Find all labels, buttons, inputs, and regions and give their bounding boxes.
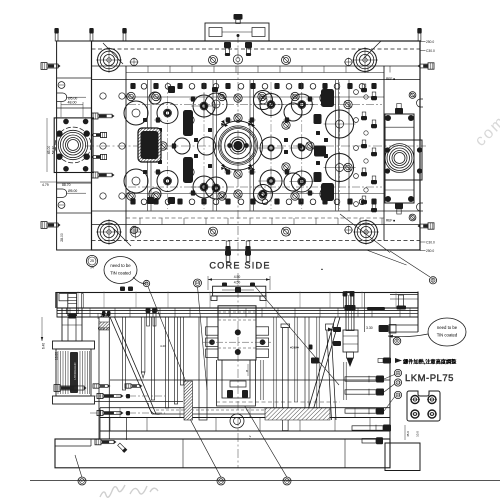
svg-text:17: 17 bbox=[80, 479, 84, 483]
svg-text:15: 15 bbox=[285, 479, 289, 483]
svg-text:C30.0: C30.0 bbox=[426, 49, 435, 53]
svg-text:REF ■: REF ■ bbox=[386, 77, 395, 81]
svg-text:45.0: 45.0 bbox=[406, 431, 410, 437]
svg-text:250.0: 250.0 bbox=[426, 40, 434, 44]
svg-text:14: 14 bbox=[396, 393, 400, 397]
svg-text:CORE SIDE: CORE SIDE bbox=[209, 261, 270, 271]
svg-text:3.30: 3.30 bbox=[366, 326, 373, 330]
svg-text:LKM-PL75: LKM-PL75 bbox=[405, 373, 454, 384]
svg-text:88.70: 88.70 bbox=[62, 183, 71, 187]
svg-text:REF ■: REF ■ bbox=[386, 219, 395, 223]
svg-text:x4: x4 bbox=[90, 265, 94, 269]
svg-text:16.00: 16.00 bbox=[55, 352, 59, 360]
svg-text:11: 11 bbox=[396, 371, 400, 375]
svg-text:4.50: 4.50 bbox=[234, 275, 241, 279]
svg-text:250.0: 250.0 bbox=[426, 249, 434, 253]
svg-text:25: 25 bbox=[90, 259, 94, 263]
svg-text:#DIM#: #DIM# bbox=[290, 346, 299, 350]
svg-text:▲: ▲ bbox=[321, 267, 324, 271]
svg-text:57.30: 57.30 bbox=[52, 146, 56, 155]
svg-text:Ø38.00: Ø38.00 bbox=[98, 327, 110, 331]
svg-text:18: 18 bbox=[196, 281, 200, 285]
svg-text:TiN coated: TiN coated bbox=[110, 271, 131, 276]
svg-text:25.40: 25.40 bbox=[101, 314, 110, 318]
svg-text:4.79: 4.79 bbox=[42, 183, 49, 187]
svg-text:Ø5.00: Ø5.00 bbox=[68, 189, 77, 193]
svg-text:TiN coated: TiN coated bbox=[437, 333, 458, 338]
svg-text:6.40: 6.40 bbox=[42, 343, 46, 349]
svg-text:4.20: 4.20 bbox=[160, 344, 166, 348]
svg-text:13: 13 bbox=[396, 381, 400, 385]
svg-text:HYDRAULIC: HYDRAULIC bbox=[73, 362, 77, 380]
svg-text:28.00: 28.00 bbox=[60, 233, 64, 242]
svg-text:45.00: 45.00 bbox=[47, 146, 51, 155]
svg-text:48.00: 48.00 bbox=[68, 101, 77, 105]
svg-text:C30.0: C30.0 bbox=[426, 240, 435, 244]
svg-text:4.50: 4.50 bbox=[234, 281, 241, 285]
svg-text:16: 16 bbox=[219, 479, 223, 483]
svg-text:need to be: need to be bbox=[110, 263, 131, 268]
svg-text:need to be: need to be bbox=[437, 325, 458, 330]
svg-text:P: P bbox=[145, 282, 147, 286]
svg-text:鏢件加熱,注意高度調整: 鏢件加熱,注意高度調整 bbox=[403, 358, 456, 366]
svg-text:10.0: 10.0 bbox=[416, 431, 420, 437]
svg-text:7.2: 7.2 bbox=[248, 435, 252, 439]
